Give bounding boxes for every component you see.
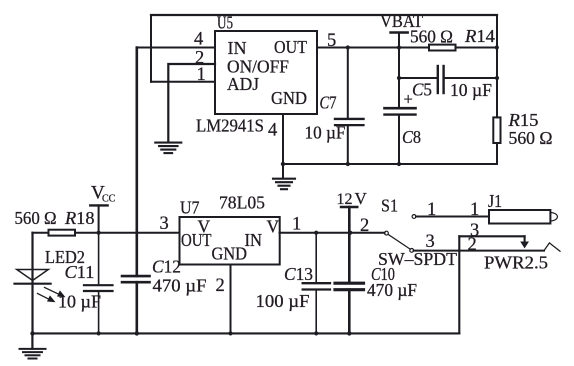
- junction C11 bottom: [97, 331, 101, 335]
- ground (bottom left): [31, 333, 33, 348]
- capacitor C7: [347, 48, 349, 119]
- svg-text:2: 2: [468, 235, 477, 255]
- svg-text:S1: S1: [381, 195, 398, 215]
- LED arrows: [38, 288, 61, 300]
- svg-text:3: 3: [160, 214, 169, 234]
- svg-text:C8: C8: [402, 127, 421, 147]
- connector J1 barrel: [489, 210, 550, 224]
- ground (U5 ON/OFF): [155, 143, 181, 154]
- svg-text:12: 12: [337, 191, 353, 208]
- svg-text:100 µF: 100 µF: [256, 291, 310, 311]
- svg-text:C5: C5: [412, 80, 432, 100]
- svg-text:R18: R18: [64, 208, 95, 228]
- svg-text:+: +: [404, 90, 413, 109]
- wire switch pin1 to J1: [416, 216, 489, 218]
- wire left vertical to ADJ: [150, 15, 152, 82]
- switch S1 common contact: [385, 231, 389, 235]
- resistor R14: [429, 45, 456, 51]
- wire U5 GND pin: [282, 114, 284, 178]
- svg-text:ADJ: ADJ: [227, 74, 259, 94]
- svg-text:470 µF: 470 µF: [367, 280, 417, 300]
- capacitor C12: [122, 275, 150, 278]
- regulator U5: [215, 31, 317, 114]
- wire U7 IN to switch: [280, 232, 385, 234]
- junction C8 bottom: [397, 162, 401, 166]
- capacitor C13: [315, 233, 317, 284]
- svg-text:1: 1: [197, 65, 206, 85]
- junction VCC stub: [97, 231, 101, 235]
- junction U7 GND bottom: [228, 331, 232, 335]
- svg-text:GND: GND: [212, 244, 248, 264]
- svg-text:4: 4: [194, 30, 203, 50]
- junction C12 bottom: [135, 331, 139, 335]
- junction C5 left: [397, 76, 401, 80]
- svg-text:PWR2.5: PWR2.5: [484, 253, 548, 273]
- svg-text:1: 1: [292, 215, 301, 235]
- capacitor C11: [98, 233, 100, 286]
- wire ADJ pin 1: [151, 81, 215, 83]
- svg-text:C13: C13: [284, 264, 313, 284]
- LED LED2 branch: [31, 233, 33, 334]
- svg-text:C7: C7: [320, 92, 337, 112]
- junction U5 ground node: [281, 162, 285, 166]
- regulator U7: [180, 217, 280, 265]
- power 12V stub: [341, 206, 357, 208]
- svg-text:R14: R14: [464, 26, 495, 46]
- svg-text:10 µF: 10 µF: [305, 123, 346, 143]
- svg-text:10 µF: 10 µF: [450, 80, 492, 100]
- junction R14 right node: [495, 45, 499, 49]
- wire R14 to right rail: [456, 47, 498, 49]
- svg-text:IN: IN: [245, 230, 263, 250]
- wire switch pin 3 to jack spring: [414, 250, 544, 252]
- capacitor C5: [399, 77, 438, 79]
- wire right rail: [496, 15, 498, 117]
- switch pin 1 contact: [412, 215, 416, 219]
- svg-text:OUT: OUT: [181, 230, 212, 250]
- svg-text:V: V: [355, 189, 368, 208]
- svg-text:4: 4: [268, 121, 277, 141]
- svg-text:560 Ω: 560 Ω: [15, 208, 57, 228]
- resistor R18: [49, 230, 76, 236]
- junction C13 bottom: [314, 331, 318, 335]
- power VBAT: [391, 31, 408, 33]
- junction C7 bottom: [346, 162, 350, 166]
- wire top feedback: [151, 14, 497, 16]
- svg-text:10 µF: 10 µF: [58, 292, 101, 312]
- svg-text:C11: C11: [65, 262, 95, 282]
- svg-text:2: 2: [360, 216, 369, 236]
- junction C7 top node: [346, 45, 350, 49]
- svg-text:IN: IN: [228, 38, 247, 58]
- svg-text:U7: U7: [180, 197, 200, 217]
- junction C5 right: [495, 76, 499, 80]
- power VCC stub: [90, 204, 107, 206]
- junction C13 top: [314, 231, 318, 235]
- svg-text:SW–SPDT: SW–SPDT: [378, 249, 457, 269]
- wire ground rail bottom: [32, 332, 459, 334]
- wire ON/OFF pin 2: [168, 64, 215, 142]
- svg-text:U5: U5: [217, 12, 233, 32]
- wire vertical branch to C12: [136, 48, 139, 277]
- junction LED anode bottom: [30, 331, 34, 335]
- capacitor C10: [348, 207, 351, 283]
- svg-text:1: 1: [427, 200, 436, 220]
- wire U7 GND pin 2: [230, 265, 232, 334]
- svg-text:V: V: [267, 216, 280, 236]
- svg-text:GND: GND: [271, 88, 307, 108]
- svg-text:560 Ω: 560 Ω: [509, 128, 553, 148]
- svg-text:1: 1: [470, 200, 479, 220]
- wire R15 to ground rail: [283, 143, 497, 164]
- jack spring contact: [544, 243, 560, 251]
- capacitor C8: [385, 107, 416, 110]
- junction C10 bottom: [347, 331, 351, 335]
- svg-text:LM2941S: LM2941S: [196, 116, 264, 136]
- wire jack return vertical: [458, 236, 460, 333]
- LED LED2: [17, 270, 49, 281]
- junction VBAT node: [397, 45, 401, 49]
- svg-text:2: 2: [216, 276, 225, 296]
- junction 12V node: [348, 231, 352, 235]
- svg-text:5: 5: [327, 31, 336, 51]
- resistor R15: [493, 117, 500, 143]
- wire jack pin2 arrow feed: [459, 235, 524, 237]
- svg-text:560 Ω: 560 Ω: [410, 27, 453, 47]
- wire IN pin 4: [137, 47, 215, 49]
- svg-text:J1: J1: [488, 191, 502, 211]
- svg-text:CC: CC: [102, 193, 116, 204]
- svg-text:470 µF: 470 µF: [153, 275, 207, 295]
- svg-text:OUT: OUT: [274, 37, 307, 57]
- switch S1 lever: [388, 234, 410, 249]
- wire VCC rail: [32, 232, 179, 234]
- svg-text:C12: C12: [152, 257, 181, 277]
- ground (U5 GND): [273, 179, 295, 190]
- svg-text:78L05: 78L05: [219, 193, 265, 213]
- wire OUT pin 5: [317, 47, 429, 49]
